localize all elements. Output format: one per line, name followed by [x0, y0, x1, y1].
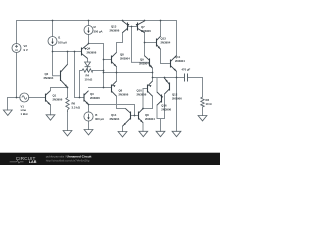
svg-text:3.3 kΩ: 3.3 kΩ: [72, 106, 81, 110]
svg-text:2N3904: 2N3904: [44, 76, 54, 80]
svg-text:2N3904: 2N3904: [139, 61, 149, 65]
svg-text:I2: I2: [94, 25, 97, 29]
svg-text:2N3906: 2N3906: [141, 29, 151, 33]
svg-text:http://circuitlab.com/c/z7t4e6: http://circuitlab.com/c/z7t4e6zt26g: [46, 158, 90, 162]
svg-text:2N3906: 2N3906: [161, 107, 171, 111]
svg-text:2N3904: 2N3904: [175, 59, 185, 63]
svg-text:2N3906: 2N3906: [87, 51, 97, 55]
svg-text:1 kHz: 1 kHz: [21, 112, 29, 116]
svg-text:10 Ω: 10 Ω: [206, 102, 213, 106]
svg-text:2N3906: 2N3906: [90, 96, 100, 100]
svg-text:LAB: LAB: [29, 160, 37, 164]
svg-text:2N3904: 2N3904: [161, 40, 171, 44]
svg-text:I1: I1: [58, 36, 61, 40]
svg-text:100 µA: 100 µA: [58, 40, 67, 44]
svg-text:2N3906: 2N3906: [53, 98, 63, 102]
svg-text:9 V: 9 V: [24, 48, 28, 52]
svg-text:2N3906: 2N3906: [110, 29, 120, 33]
svg-text:10 kΩ: 10 kΩ: [85, 78, 93, 82]
svg-text:300 µA: 300 µA: [94, 30, 103, 34]
svg-text:2N3904: 2N3904: [120, 56, 130, 60]
svg-text:2N3906: 2N3906: [119, 93, 129, 97]
svg-text:2N3906: 2N3906: [137, 93, 147, 97]
svg-text:2N3904: 2N3904: [145, 117, 155, 121]
svg-text:2N3906: 2N3906: [172, 97, 182, 101]
svg-text:470 µF: 470 µF: [182, 67, 191, 71]
svg-text:300 µA: 300 µA: [95, 117, 104, 121]
svg-text:2N3904: 2N3904: [110, 117, 120, 121]
